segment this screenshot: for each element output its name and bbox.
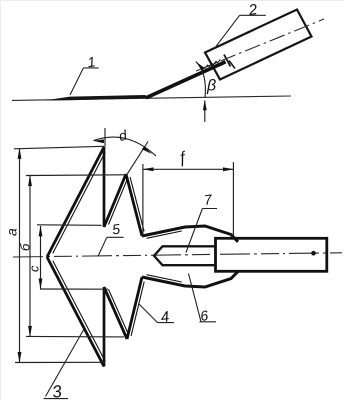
arrow c bottom <box>39 279 43 290</box>
top notch rising edge <box>104 174 126 227</box>
svg-text:c: c <box>27 265 42 272</box>
handle U2 body <box>205 10 312 80</box>
leader 6 <box>189 274 217 322</box>
leader 1 <box>70 68 99 95</box>
angle d arc <box>94 137 157 156</box>
shank <box>216 238 327 271</box>
tang serration <box>205 59 220 68</box>
svg-text:a: a <box>4 228 20 236</box>
bottom notch falling edge <box>104 287 127 339</box>
inner bevel lower-left edge <box>53 261 105 362</box>
arrow a top <box>18 148 22 159</box>
arrow f right <box>223 167 234 171</box>
beta arc arrow <box>196 62 205 71</box>
arrow f left <box>143 167 154 171</box>
extension line f left <box>142 164 144 234</box>
svg-text:β: β <box>206 78 216 95</box>
angle beta arc <box>196 62 206 99</box>
handle bolster step <box>229 61 235 69</box>
neck upper inner line <box>147 231 182 238</box>
blade 1 flat strip <box>44 95 150 101</box>
arrow b top <box>28 175 32 186</box>
tongue 7 <box>154 246 216 265</box>
neck lower edge <box>142 272 238 288</box>
extension line c bottom <box>40 288 108 290</box>
bottom second peak rising edge <box>127 277 142 339</box>
extension line b top <box>26 174 125 177</box>
hole in shank <box>311 251 316 256</box>
neck upper edge <box>142 226 238 242</box>
extension line b bottom <box>26 335 124 338</box>
arc right arrow <box>142 146 152 154</box>
blade outline: tip to bottom vertex <box>47 257 104 367</box>
arrow c top <box>39 225 43 236</box>
svg-text:б: б <box>18 243 33 251</box>
dimension c line <box>40 226 42 289</box>
ground line <box>12 96 291 100</box>
inner bevel of bottom notch <box>109 289 129 334</box>
leader 2 <box>215 15 266 48</box>
arrow a bottom <box>18 352 22 363</box>
dimension f line <box>143 168 233 170</box>
centerline <box>13 253 342 257</box>
blade outline: tip to top vertex <box>47 147 104 257</box>
inner bevel of notch rising edge <box>109 179 128 225</box>
leader 3 <box>44 329 84 399</box>
top second peak falling edge <box>126 174 142 236</box>
extension line c top <box>37 224 102 227</box>
arrow b bottom <box>28 326 32 337</box>
inner bevel of falling edge <box>130 177 144 231</box>
neck lower inner line <box>147 275 182 282</box>
inclined blade tang <box>146 62 226 98</box>
angle d vertical extension <box>104 128 106 147</box>
bottom vertical edge <box>103 287 106 367</box>
extension line a bottom <box>15 361 105 363</box>
vertical reference tick <box>204 101 206 123</box>
handle collar line <box>224 55 231 67</box>
extension line a top <box>14 146 104 149</box>
angle d slanted extension <box>126 142 148 177</box>
leader 5 <box>98 237 124 256</box>
leader 4 <box>139 304 175 323</box>
inner bevel of bottom rising edge <box>131 282 144 336</box>
inner bevel line upper-left edge <box>53 152 105 253</box>
arc left arrow <box>93 139 104 143</box>
extension line f right <box>232 162 234 238</box>
dimension b line <box>29 176 31 336</box>
leader 7 <box>186 209 217 253</box>
top vertical edge <box>103 147 106 227</box>
handle axis centerline <box>196 19 324 71</box>
vertical tick arrow <box>203 100 207 111</box>
dimension a line <box>19 149 21 363</box>
